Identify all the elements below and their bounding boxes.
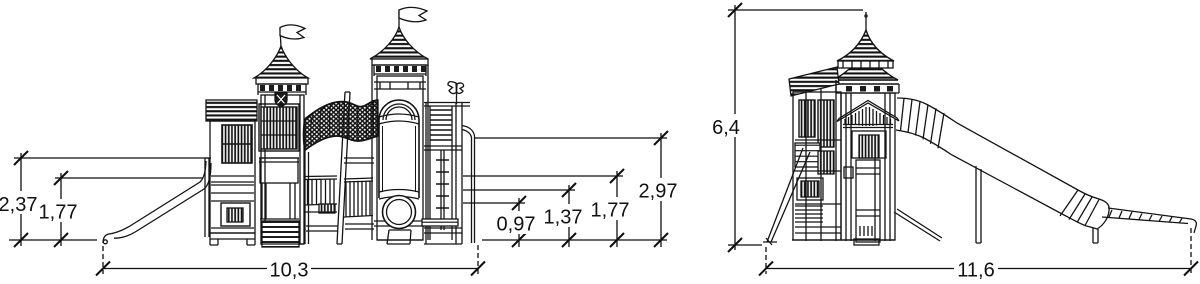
side annex wall: [793, 92, 841, 240]
side slide bottom edge: [896, 130, 1086, 226]
left tower window crossbars: [261, 121, 297, 135]
side gable roof: [837, 101, 899, 122]
side slide leg 2: [1093, 228, 1098, 243]
side slide mouth: [1086, 199, 1109, 229]
right frame base: [424, 103, 462, 244]
side tower interior lines: [846, 93, 890, 241]
ground line left: [9, 239, 97, 241]
side tower lower panel: [860, 226, 872, 236]
label 2,37: [0, 191, 40, 214]
side annex mid window: [818, 151, 834, 174]
dim 6,4 top extension: [728, 9, 863, 11]
dim 6,4 vertical line: [734, 5, 736, 250]
side slide tip: [1191, 219, 1196, 233]
left tower parapet line: [258, 84, 306, 95]
side tower crenellation notches: [846, 86, 893, 92]
dim 11,6 left extension: [765, 247, 767, 274]
mid platform beam: [306, 224, 374, 231]
side tower handholds: [844, 167, 853, 178]
dim 10,3 line: [103, 268, 478, 270]
dim 2,37 vertical line: [20, 153, 22, 246]
label 0,97: [494, 211, 538, 234]
left slide lower edge: [114, 163, 211, 238]
tube slide side shading: [383, 126, 416, 192]
left tower door opening: [260, 158, 298, 183]
dim 1,37 vertical line: [568, 185, 570, 247]
side tower finial: [865, 12, 867, 31]
side slide runout hatch: [1109, 210, 1182, 223]
main tower flag pole: [398, 10, 400, 28]
main tower roof cone: [370, 27, 428, 59]
svg-text:11,6: 11,6: [957, 260, 994, 282]
svg-text:1,77: 1,77: [39, 202, 78, 224]
tube slide top arch mid: [383, 104, 415, 120]
svg-text:10,3: 10,3: [270, 260, 309, 282]
tower cross beam: [374, 221, 426, 226]
railing left bench: [319, 204, 335, 213]
side annex lower window inner: [801, 181, 819, 197]
dim 2,97 vertical line: [660, 133, 662, 247]
side structure feet: [792, 239, 895, 241]
left tower climb rungs: [262, 221, 299, 247]
side slide runout lower: [1102, 217, 1188, 224]
side slide top edge: [897, 98, 1099, 199]
side tower column foot: [854, 239, 879, 245]
left tower flag pole: [280, 29, 281, 47]
main tower side posts: [372, 65, 428, 240]
side tower lantern posts: [843, 61, 888, 68]
tube ring bottom: [379, 190, 419, 200]
right frame top bars: [424, 103, 470, 107]
left slide upper edge: [103, 161, 206, 243]
side gable trim: [843, 125, 893, 128]
net left end: [304, 119, 306, 150]
railing left under net: [304, 176, 337, 205]
left wall small window inner: [227, 208, 243, 222]
left tower body inner edges: [265, 95, 300, 244]
left tower flag: [280, 25, 305, 39]
side tower lantern band: [838, 61, 893, 68]
left tower shield emblem: [275, 93, 287, 107]
right frame ladder rails: [426, 103, 456, 245]
side tower column bands: [856, 168, 880, 216]
fireman pole curve: [462, 126, 475, 244]
dim 1,77 right extension line: [463, 175, 623, 177]
left platform post: [205, 158, 209, 237]
net bridge top rope: [305, 100, 378, 119]
left tower roof cone: [254, 46, 308, 78]
side brace feet: [763, 238, 777, 245]
net bridge bottom rope: [305, 136, 378, 150]
side annex barred window 1: [799, 100, 815, 137]
net bridge band: [305, 100, 378, 150]
dim 0,97 vertical line: [518, 198, 520, 247]
tube bottom circle inner: [387, 200, 412, 225]
svg-text:0,97: 0,97: [497, 214, 536, 236]
dim 1,77 right vertical line: [616, 171, 618, 247]
dim 2,97 extension line: [474, 137, 667, 139]
svg-text:1,77: 1,77: [591, 200, 630, 222]
left tower window frame: [259, 104, 299, 151]
label 2,97: [636, 178, 680, 201]
side tower parapet lines: [836, 84, 899, 93]
left slide foot knob: [103, 240, 107, 244]
railing right under net: [344, 178, 373, 217]
side tower lower roof skirt: [834, 48, 899, 80]
side annex slat panel: [795, 143, 820, 167]
ground line right of left view: [482, 239, 667, 241]
left railing post: [305, 150, 309, 244]
dimension labels: [0, 114, 998, 282]
side slide end cuff bands: [1060, 190, 1099, 226]
main tower crenellation: [376, 66, 426, 72]
label 11,6: [954, 257, 998, 280]
side annex lower window: [797, 178, 823, 200]
right pennant flag right lobe: [457, 83, 464, 93]
tube slide top arch outer: [379, 100, 419, 120]
side slide leg 1: [976, 166, 981, 243]
fireman pole curve inner: [462, 130, 472, 244]
right frame platform: [424, 146, 462, 150]
tube slide top arch inner: [386, 107, 412, 120]
dim 10,3 left extension: [102, 246, 104, 274]
left tower crenellation: [260, 85, 301, 91]
label 1,77 right: [588, 197, 632, 220]
net support post: [337, 92, 350, 244]
left wall awning roof: [206, 100, 257, 121]
dim 2,37 extension top line: [14, 157, 211, 159]
svg-text:2,97: 2,97: [639, 181, 678, 203]
dim 1,77 left vertical line: [60, 173, 62, 246]
main tower flag: [399, 7, 427, 21]
left wall attach band: [211, 176, 254, 182]
svg-text:1,37: 1,37: [544, 207, 583, 229]
railing left beam: [304, 211, 337, 213]
left wall barred window: [222, 125, 252, 163]
net bridge ring lines: [311, 101, 374, 145]
main tower band rail: [374, 82, 426, 89]
side tower finial ball: [864, 14, 867, 17]
side slide start bands: [901, 98, 945, 148]
left wall siding lines: [211, 185, 254, 228]
side tower inner column: [856, 160, 880, 242]
right frame ladder rungs: [430, 110, 452, 140]
left tower barred window: [261, 107, 297, 149]
side structure posts: [806, 80, 875, 241]
right climb pole discs: [436, 160, 449, 220]
label 1,37: [541, 204, 585, 227]
side tower body: [841, 93, 895, 240]
dim 1,77 left extension line: [55, 177, 203, 179]
side door: [852, 131, 886, 158]
side slide runout upper: [1108, 208, 1191, 219]
side annex barred window 2: [818, 100, 834, 147]
dim 1,37 extension line: [463, 189, 575, 191]
left wall window midbar: [222, 143, 252, 145]
feet of structure: [261, 240, 462, 244]
left tower door top lip: [259, 158, 299, 162]
label 1,77 left: [38, 199, 78, 222]
main tower body: [377, 76, 423, 240]
left wall body: [210, 121, 255, 233]
svg-text:2,37: 2,37: [0, 194, 37, 216]
left tower eave band: [256, 78, 308, 84]
tube slide sides: [379, 120, 419, 198]
main tower eave band: [372, 59, 428, 65]
right climb pole: [441, 150, 444, 230]
svg-text:6,4: 6,4: [712, 117, 740, 139]
dim 10,3 right extension: [477, 245, 479, 274]
side gable hatching: [845, 107, 891, 126]
side structure horizontal beams: [795, 140, 841, 233]
left wall feet: [210, 233, 255, 245]
side diagonal brace 2: [771, 152, 810, 242]
label 10,3: [267, 257, 311, 280]
side annex roof: [789, 67, 839, 96]
left tower body: [261, 95, 304, 244]
right pennant flag: [448, 82, 457, 94]
side door inner dark: [859, 135, 879, 158]
tube bottom circle: [383, 196, 416, 229]
side annex lower slats: [795, 206, 823, 222]
side right handrail brace: [894, 209, 942, 241]
side diagonal brace 1: [767, 148, 803, 242]
label 6,4: [710, 114, 743, 137]
right railing mid rail: [344, 158, 374, 163]
main tower parapet lines: [374, 65, 426, 76]
dim 0,97 extension line: [463, 202, 525, 204]
right frame base dark band: [422, 219, 458, 226]
side tower upper spire: [837, 30, 894, 61]
tube exit chute: [387, 230, 411, 244]
left tower shield cross: [277, 95, 285, 104]
left tower stand posts: [260, 183, 299, 219]
left wall base beam: [210, 233, 255, 239]
left wall small window: [221, 203, 250, 226]
side tower eave band: [832, 80, 899, 84]
right pennant pole: [456, 83, 458, 104]
tube ring top: [379, 114, 419, 124]
dim 11,6 line: [766, 268, 1191, 270]
dim 11,6 right extension: [1190, 228, 1192, 274]
dim 6,4 bottom extension: [728, 244, 762, 246]
